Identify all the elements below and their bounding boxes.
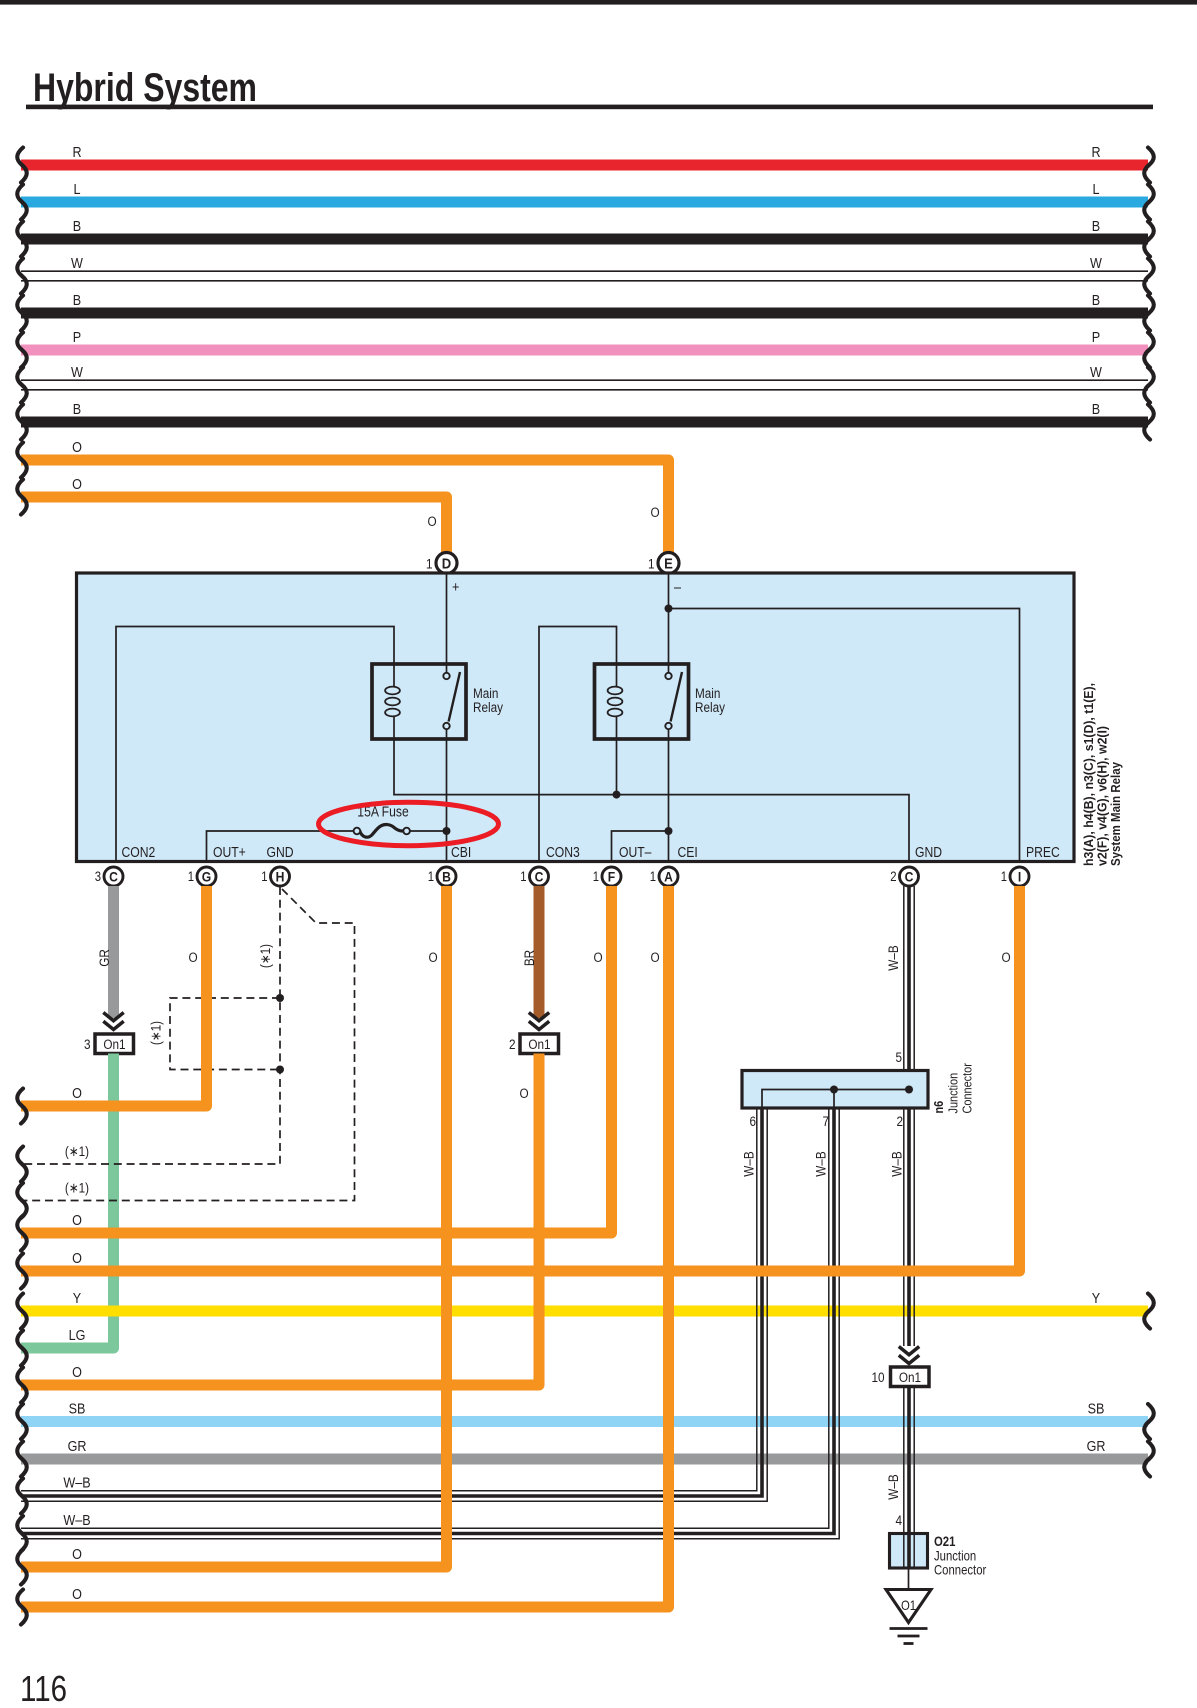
svg-text:O: O: [72, 475, 82, 492]
junction connector O21 box: [890, 1534, 928, 1569]
svg-text:W–B: W–B: [63, 1511, 90, 1528]
n6 internal bus wire: [762, 1090, 909, 1109]
wire from D to relay 1 switch: [446, 575, 448, 673]
svg-text:L: L: [73, 180, 80, 197]
svg-text:F: F: [608, 869, 616, 885]
svg-text:Connector: Connector: [960, 1063, 975, 1113]
svg-text:GR: GR: [68, 1437, 87, 1454]
svg-text:PREC: PREC: [1026, 844, 1060, 860]
wire L bus y=202: [21, 197, 1148, 208]
svg-text:1: 1: [261, 869, 267, 884]
connector pin E of System Main Relay: [658, 553, 679, 574]
svg-text:O: O: [428, 949, 437, 965]
connector On1 pin 3: [95, 1034, 134, 1054]
relay K2 coil: [616, 664, 618, 688]
svg-text:C: C: [535, 869, 544, 885]
svg-text:3: 3: [95, 869, 101, 884]
wire-break symbol left of B: [17, 296, 27, 331]
svg-text:R: R: [1091, 143, 1100, 160]
node n6 pin 2 junction: [905, 1086, 913, 1094]
wire relay coil ground rail to GND: [394, 739, 909, 862]
relay K2 Main Relay box: [595, 664, 689, 739]
wire O from pin 1I down to left: [21, 886, 1020, 1271]
wire W-B n6 pin 6 down to left bus: [21, 1108, 757, 1491]
wire LG from On1 down and left: [21, 1054, 114, 1349]
page top border bar: [0, 0, 1197, 5]
wire-break symbol left of O feed E: [17, 443, 27, 478]
svg-text:H: H: [276, 869, 285, 885]
connector pin 1 I at x=1019.5: [1010, 867, 1029, 886]
node CEI OUT- junction: [665, 827, 673, 835]
wire-break symbol left of dashed 2: [17, 1183, 27, 1218]
svg-text:6: 6: [749, 1113, 756, 1129]
wire B bus y=313: [21, 308, 1148, 319]
svg-text:CBI: CBI: [451, 844, 471, 860]
wire-break symbol right of B: [1144, 405, 1154, 440]
svg-text:C: C: [905, 869, 914, 885]
wire-break symbol right of P: [1144, 333, 1154, 368]
svg-text:O1: O1: [901, 1598, 916, 1613]
wire-break symbol left of W-B bus 1: [17, 1479, 27, 1514]
svg-text:R: R: [72, 143, 81, 160]
svg-text:3: 3: [84, 1036, 91, 1052]
wire-break symbol left of P: [17, 333, 27, 368]
svg-text:O: O: [72, 1211, 82, 1228]
dashed shield wire diagonal from H pin: [21, 889, 355, 1201]
wire W bus y=276: [21, 270, 1148, 272]
svg-text:2: 2: [896, 1113, 903, 1129]
wire fuse to CBI node: [410, 830, 447, 832]
svg-text:GR: GR: [96, 949, 112, 967]
svg-text:GR: GR: [1087, 1437, 1106, 1454]
fuse F1 15A symbol: [360, 825, 404, 838]
svg-text:W: W: [71, 363, 84, 380]
connector pin 1 H at x=280: [271, 867, 290, 886]
svg-text:+: +: [452, 578, 459, 595]
svg-text:2: 2: [890, 869, 896, 884]
svg-text:On1: On1: [899, 1369, 921, 1385]
wire O from pin 1F down to left: [21, 886, 612, 1233]
node relay 2 coil on ground rail: [613, 791, 621, 799]
svg-text:(∗1): (∗1): [65, 1143, 89, 1159]
wire relay 2 switch to CEI: [668, 730, 670, 862]
svg-text:O: O: [650, 949, 659, 965]
svg-text:CON2: CON2: [122, 844, 156, 860]
svg-text:(∗1): (∗1): [65, 1180, 89, 1196]
svg-text:O: O: [72, 1084, 82, 1101]
svg-text:O: O: [72, 1249, 82, 1266]
svg-text:Relay: Relay: [473, 699, 504, 715]
svg-text:O: O: [519, 1085, 528, 1101]
wire-break symbols and labels Y: [17, 1294, 27, 1329]
svg-text:L: L: [1092, 180, 1099, 197]
wire-break symbol left of W-B bus 2: [17, 1516, 27, 1551]
connector pin 1 G at x=206.5: [197, 867, 216, 886]
svg-text:P: P: [1092, 328, 1100, 345]
connector pin 1 C at x=539: [530, 867, 549, 886]
wire O from pin 1G down to left: [21, 886, 207, 1106]
svg-text:C: C: [109, 869, 118, 885]
svg-text:O21: O21: [934, 1534, 955, 1549]
red highlight ellipse around fuse: [319, 802, 499, 845]
svg-text:O: O: [72, 438, 82, 455]
connector pin 1 A at x=668.5: [659, 867, 678, 886]
wire O feed to connector E: [21, 460, 669, 553]
svg-text:Relay: Relay: [695, 699, 726, 715]
wire R bus y=165: [21, 160, 1148, 171]
wire-break symbol left of O feed D: [17, 480, 27, 515]
svg-text:–: –: [674, 578, 681, 595]
wire Y bus: [21, 1306, 1148, 1317]
svg-text:(∗1): (∗1): [148, 1021, 164, 1045]
svg-text:A: A: [664, 869, 673, 885]
wire P bus y=350: [21, 345, 1148, 356]
svg-text:System Main Relay: System Main Relay: [1108, 761, 1123, 866]
wire B bus y=239: [21, 234, 1148, 245]
svg-text:O: O: [1001, 949, 1010, 965]
svg-text:1: 1: [648, 556, 655, 572]
svg-text:OUT+: OUT+: [213, 844, 246, 860]
wire W-B On1 pin 10 to O21: [903, 1387, 905, 1534]
svg-text:O: O: [72, 1363, 82, 1380]
relay K1 switch: [449, 672, 460, 722]
svg-text:O: O: [427, 513, 436, 529]
connector pin D of System Main Relay: [436, 553, 457, 574]
wire-break symbol right of B: [1144, 222, 1154, 257]
svg-text:Junction: Junction: [934, 1549, 976, 1564]
arrow chevrons into On1 pin 10: [899, 1347, 919, 1355]
ground O1 triangle: [886, 1590, 931, 1623]
svg-text:W–B: W–B: [813, 1151, 829, 1176]
relay K2 switch: [671, 672, 682, 722]
svg-text:4: 4: [895, 1512, 902, 1528]
svg-text:O: O: [188, 949, 197, 965]
svg-text:B: B: [73, 217, 81, 234]
svg-text:Junction: Junction: [946, 1073, 961, 1114]
svg-text:B: B: [73, 400, 81, 417]
svg-text:10: 10: [871, 1369, 884, 1385]
svg-text:B: B: [1092, 291, 1100, 308]
relay K1 coil: [393, 664, 395, 688]
wire-break symbol left of L: [17, 185, 27, 220]
svg-text:O: O: [72, 1585, 82, 1602]
svg-text:B: B: [442, 869, 451, 885]
wire O21 to ground O1: [908, 1568, 910, 1590]
svg-text:W: W: [71, 254, 84, 271]
arrow chevrons into On1 pin 2: [529, 1013, 549, 1021]
wire-break symbol left of W: [17, 368, 27, 403]
svg-text:W–B: W–B: [63, 1473, 90, 1490]
svg-text:Hybrid System: Hybrid System: [33, 65, 257, 110]
connector pin 3 C at x=113.5: [104, 867, 123, 886]
wire-break symbol right of R: [1144, 148, 1154, 183]
dashed shield wire from H pin vertical: [21, 887, 280, 1164]
svg-text:O: O: [593, 949, 602, 965]
svg-text:On1: On1: [103, 1036, 125, 1052]
svg-text:Y: Y: [1092, 1289, 1100, 1306]
svg-text:1: 1: [188, 869, 194, 884]
wire CON2 to relay 1 coil: [116, 627, 394, 862]
wire BR from pin 1C: [534, 886, 545, 1018]
svg-text:OUT–: OUT–: [619, 844, 652, 860]
svg-text:116: 116: [20, 1668, 67, 1708]
svg-text:1: 1: [1001, 869, 1007, 884]
svg-text:(∗1): (∗1): [257, 944, 273, 968]
node n6 pin 7 junction: [830, 1086, 838, 1094]
wire W-B n6 pin 7 down to left bus: [21, 1108, 829, 1528]
wire-break symbol left of dashed 1: [17, 1147, 27, 1182]
svg-text:1: 1: [426, 556, 433, 572]
dashed shield loop around OUT+ wire: [170, 998, 280, 1070]
svg-text:I: I: [1018, 869, 1021, 885]
wire-break symbol left of LG: [17, 1331, 27, 1366]
svg-text:P: P: [73, 328, 81, 345]
svg-text:Y: Y: [73, 1289, 81, 1306]
svg-text:W–B: W–B: [889, 1151, 905, 1176]
svg-text:W–B: W–B: [885, 945, 901, 970]
wire-break symbol left of B: [17, 222, 27, 257]
wire O feed to connector D: [21, 497, 447, 553]
wire-break symbol left of B: [17, 405, 27, 440]
svg-text:O: O: [72, 1545, 82, 1562]
wire O from pin 1A down to left: [21, 886, 669, 1607]
wire-break symbol right of L: [1144, 185, 1154, 220]
junction connector n6 box: [742, 1071, 928, 1109]
wire SB bus: [21, 1416, 1148, 1427]
svg-text:W–B: W–B: [885, 1474, 901, 1499]
wire GR bus: [21, 1454, 1148, 1465]
wire O from pin 1B down to left: [21, 886, 447, 1567]
svg-text:1: 1: [650, 869, 656, 884]
svg-text:2: 2: [509, 1036, 516, 1052]
svg-text:CEI: CEI: [678, 844, 698, 860]
svg-text:W: W: [1090, 254, 1103, 271]
svg-text:Connector: Connector: [934, 1563, 986, 1578]
wire-break symbol left of R: [17, 148, 27, 183]
wire O from On1 pin 2 down to left: [21, 1054, 539, 1386]
wire relay 1 switch to CBI: [446, 730, 448, 862]
svg-text:GND: GND: [915, 844, 942, 860]
title underline rule: [26, 105, 1153, 110]
wire relay 2 coil bottom: [616, 739, 618, 795]
connector pin 2 C at x=909: [900, 867, 919, 886]
svg-text:D: D: [442, 556, 451, 572]
wire-break symbol left of W: [17, 259, 27, 294]
node dashed junction lower: [276, 1066, 284, 1074]
svg-text:1: 1: [520, 869, 526, 884]
svg-text:n6: n6: [931, 1100, 946, 1113]
wire-break symbol right of W: [1144, 259, 1154, 294]
connector On1 pin 10: [891, 1367, 930, 1387]
svg-text:W–B: W–B: [741, 1151, 757, 1176]
ground symbol bars: [890, 1627, 928, 1630]
wire B bus y=422: [21, 417, 1148, 428]
wire-break symbol right of W: [1144, 368, 1154, 403]
wire E branch to PREC: [669, 609, 1020, 862]
wire OUT- to CEI: [612, 831, 669, 862]
svg-text:E: E: [664, 556, 673, 572]
svg-text:W: W: [1090, 363, 1103, 380]
wire from E to relay 2 switch: [668, 575, 670, 673]
svg-text:On1: On1: [528, 1036, 550, 1052]
svg-text:GND: GND: [267, 844, 294, 860]
svg-text:B: B: [73, 291, 81, 308]
System Main Relay component box: [77, 573, 1075, 862]
svg-text:7: 7: [822, 1113, 829, 1129]
connector On1 pin 2: [520, 1034, 559, 1054]
arrow chevrons into On1 pin 3: [103, 1013, 123, 1021]
connector pin 1 F at x=611.5: [602, 867, 621, 886]
svg-text:BR: BR: [521, 950, 537, 966]
wire W-B through O21: [903, 1534, 905, 1569]
svg-text:1: 1: [428, 869, 434, 884]
wire W-B from pin 2C to n6 pin 5: [903, 886, 905, 1346]
svg-text:B: B: [1092, 217, 1100, 234]
node CBI fuse junction: [443, 827, 451, 835]
relay K1 Main Relay box: [372, 664, 466, 739]
node E branch junction: [665, 605, 673, 613]
wire-break symbol right of B: [1144, 296, 1154, 331]
wire CON3 to relay 2 coil: [539, 627, 617, 862]
connector pin 1 B at x=446.5: [437, 867, 456, 886]
svg-text:SB: SB: [69, 1399, 86, 1416]
svg-text:O: O: [650, 504, 659, 520]
svg-text:B: B: [1092, 400, 1100, 417]
svg-text:1: 1: [593, 869, 599, 884]
node dashed junction upper: [276, 994, 284, 1002]
svg-text:CON3: CON3: [546, 844, 580, 860]
wire GR from pin 3C: [108, 886, 119, 1018]
fuse F1 15A wire from OUT+: [207, 831, 354, 862]
svg-text:SB: SB: [1088, 1399, 1105, 1416]
svg-text:5: 5: [895, 1049, 902, 1065]
svg-text:G: G: [202, 869, 211, 885]
svg-text:LG: LG: [69, 1326, 86, 1343]
wire W bus y=385: [21, 379, 1148, 381]
